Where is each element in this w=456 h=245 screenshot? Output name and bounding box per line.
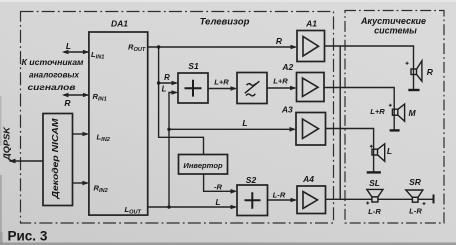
TV dash-dot frame bbox=[21, 12, 334, 224]
svg-text:-R: -R bbox=[214, 183, 223, 192]
node R junction on R_OUT wire bbox=[157, 45, 160, 48]
svg-text:L: L bbox=[387, 146, 392, 156]
wire L input double arrow bbox=[64, 51, 89, 53]
block S2 adder bbox=[237, 185, 268, 216]
svg-text:L+R: L+R bbox=[214, 78, 229, 87]
svg-text:L-R: L-R bbox=[273, 191, 286, 200]
svg-text:R: R bbox=[276, 36, 283, 46]
block S1 adder bbox=[178, 73, 208, 103]
plus mark speaker M bbox=[389, 104, 392, 107]
svg-text:ДQPSK: ДQPSK bbox=[2, 126, 12, 161]
svg-text:L: L bbox=[66, 41, 71, 51]
amplifier A1 box bbox=[297, 31, 325, 62]
speaker SL bbox=[367, 189, 383, 197]
wire L to A3 bbox=[169, 128, 295, 130]
speaker L bbox=[372, 149, 378, 155]
svg-text:L: L bbox=[242, 118, 247, 128]
block inverter bbox=[179, 155, 228, 175]
arrowhead -R into S2 bbox=[231, 189, 238, 194]
wire R_OUT to A1 bbox=[148, 46, 296, 48]
svg-text:системы: системы bbox=[374, 26, 417, 36]
svg-text:Рис. 3: Рис. 3 bbox=[8, 229, 48, 244]
wire A3 to speaker L bbox=[326, 129, 374, 172]
svg-text:R: R bbox=[427, 67, 434, 77]
speaker M bbox=[392, 109, 397, 115]
filter symbol squiggle bbox=[245, 81, 260, 96]
svg-text:L-R: L-R bbox=[368, 207, 381, 216]
wire common return vertical bbox=[339, 46, 341, 199]
svg-text:L+R: L+R bbox=[370, 107, 385, 116]
arrowhead into A4 bbox=[291, 198, 298, 203]
svg-text:SR: SR bbox=[409, 177, 422, 187]
amplifier A4 box bbox=[297, 186, 326, 214]
ground bar speaker M bbox=[390, 129, 400, 131]
amplifier A3 box bbox=[296, 113, 326, 146]
svg-text:Телевизор: Телевизор bbox=[200, 17, 250, 28]
svg-text:A3: A3 bbox=[281, 104, 293, 114]
wire A4 to SL SR chain bbox=[326, 198, 434, 200]
wire decoder to L_IN2 bbox=[73, 133, 88, 135]
wire R to S1 bbox=[159, 82, 177, 84]
node L junction on L_OUT wire bbox=[167, 205, 170, 208]
svg-text:сигналов: сигналов bbox=[28, 83, 76, 92]
arrowhead R into DA1 bbox=[83, 93, 89, 97]
svg-text:L: L bbox=[162, 84, 167, 93]
A4 triangle bbox=[303, 192, 318, 209]
block DA1 bbox=[89, 32, 148, 215]
wire S1 to filter bbox=[208, 88, 236, 90]
wire A2 to speaker M bbox=[324, 88, 394, 130]
svg-text:S1: S1 bbox=[188, 61, 199, 71]
arrowhead into A1 bbox=[291, 45, 298, 50]
ground bar speaker L bbox=[367, 171, 381, 173]
svg-text:R: R bbox=[164, 73, 170, 82]
wire A1 to speaker R bbox=[325, 46, 414, 90]
amplifier A2 box bbox=[297, 73, 325, 102]
arrowhead R into S1 bbox=[172, 81, 179, 86]
node R junction at S1 branch bbox=[157, 81, 160, 84]
arrowhead L outward bbox=[62, 50, 69, 54]
A2 triangle bbox=[303, 78, 319, 97]
arrowhead into filter bbox=[231, 86, 238, 91]
svg-text:L-R: L-R bbox=[409, 207, 422, 216]
arrowhead L into DA1 bbox=[83, 50, 89, 54]
arrowhead into A3 bbox=[290, 127, 297, 132]
ground bar speaker R bbox=[408, 89, 419, 91]
plus mark speaker L bbox=[370, 145, 373, 148]
svg-text:Декодер NICAM: Декодер NICAM bbox=[51, 118, 60, 199]
svg-text:Акустические: Акустические bbox=[360, 16, 426, 26]
arrowhead into L_IN2 bbox=[82, 132, 89, 137]
wire L_OUT to S2 bbox=[148, 206, 236, 208]
svg-text:DA1: DA1 bbox=[111, 19, 128, 29]
plus mark speaker SR bbox=[423, 202, 426, 205]
plus mark speaker SL bbox=[366, 202, 369, 205]
S1 plus sign bbox=[185, 80, 202, 97]
wire DQPSK arrow bbox=[10, 160, 43, 162]
svg-text:Инвертор: Инвертор bbox=[183, 161, 223, 170]
acoustic systems dash-dot frame bbox=[345, 11, 444, 224]
svg-text:К источникам: К источникам bbox=[22, 58, 84, 67]
wire R input double arrow bbox=[64, 94, 89, 96]
wire inverter to S2 bbox=[204, 174, 236, 191]
arrowhead into R_IN2 bbox=[82, 181, 89, 186]
arrowhead L into S2 bbox=[231, 205, 238, 210]
block filter bbox=[237, 73, 267, 104]
svg-text:S2: S2 bbox=[246, 175, 257, 185]
svg-text:R: R bbox=[64, 98, 71, 108]
arrowhead R outward bbox=[62, 93, 69, 97]
svg-text:A2: A2 bbox=[281, 62, 293, 72]
block decoder NICAM bbox=[43, 114, 73, 206]
svg-text:L: L bbox=[216, 198, 221, 207]
wire decoder to R_IN2 bbox=[73, 182, 88, 184]
svg-text:A1: A1 bbox=[305, 18, 317, 28]
S2 plus sign bbox=[245, 192, 261, 208]
arrowhead into A2 bbox=[290, 86, 297, 91]
svg-text:аналоговых: аналоговых bbox=[29, 71, 79, 80]
A1 triangle bbox=[303, 37, 319, 57]
wire filter to A2 bbox=[267, 87, 295, 89]
wire L branch vertical bbox=[169, 93, 177, 208]
wire S2 to A4 bbox=[268, 199, 296, 201]
A3 triangle bbox=[303, 119, 319, 139]
svg-text:A4: A4 bbox=[302, 174, 314, 184]
speaker R bbox=[411, 69, 417, 75]
svg-text:L+R: L+R bbox=[273, 77, 288, 86]
svg-text:М: М bbox=[408, 108, 416, 118]
speaker SR bbox=[406, 190, 423, 197]
arrowhead L into S1 bbox=[172, 90, 179, 95]
terminal bar right end bbox=[433, 195, 435, 204]
arrowhead DQPSK bbox=[9, 159, 16, 164]
node L junction at A3 branch bbox=[167, 128, 170, 131]
svg-text:SL: SL bbox=[369, 178, 380, 188]
plus mark speaker R bbox=[406, 62, 409, 65]
wire R branch vertical bbox=[159, 47, 204, 155]
